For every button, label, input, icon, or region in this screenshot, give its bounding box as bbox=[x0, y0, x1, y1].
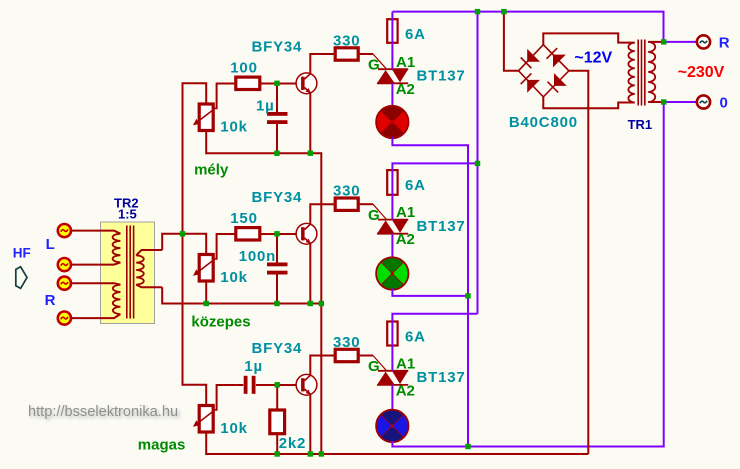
diode D3 (bottom-left) bbox=[521, 73, 540, 92]
node TR1 R junction bbox=[661, 39, 666, 44]
svg-text:0: 0 bbox=[720, 95, 728, 112]
potentiometer 10k channel 3 bbox=[193, 406, 216, 433]
wire TR2 top to channel2 input / pot2 top bbox=[162, 234, 206, 255]
wire collector3 to 330 resistor bbox=[310, 356, 335, 376]
node ground rail bottom junction bbox=[319, 451, 324, 456]
wire 2k2 top bbox=[276, 385, 278, 410]
transistor Q1 BFY34 bbox=[296, 73, 317, 94]
wire bridge right corner to ground rail bbox=[569, 71, 588, 454]
wire L- to TR2 winding1 bbox=[71, 262, 120, 264]
fuse 6A channel 1 bbox=[387, 19, 397, 43]
svg-text:mély: mély bbox=[194, 162, 229, 179]
wire feed channel 2 bbox=[392, 163, 477, 219]
wire pot2 wiper to resistor bbox=[216, 234, 236, 259]
wire series cap to base channel 3 bbox=[256, 384, 296, 386]
wire R+ to TR2 winding2 bbox=[71, 283, 120, 285]
svg-text:magas: magas bbox=[138, 436, 186, 453]
TR2 primary winding 2 bbox=[113, 285, 121, 314]
wire triac3 A2 to lamp bbox=[391, 385, 393, 411]
bridge diamond outline bbox=[519, 45, 569, 97]
wire pot1 bottom / channel1 ground rail down bbox=[206, 131, 321, 455]
svg-text:A2: A2 bbox=[396, 231, 415, 248]
wire 330 out channel 1 bbox=[358, 53, 373, 55]
wire 330 out channel 2 bbox=[358, 203, 373, 205]
wire emitter3 to ground bbox=[309, 395, 311, 455]
svg-text:~12V: ~12V bbox=[574, 50, 612, 67]
node cap2 bottom junction bbox=[274, 301, 279, 306]
svg-text:BFY34: BFY34 bbox=[252, 189, 303, 206]
svg-text:330: 330 bbox=[333, 33, 360, 50]
terminal 0 mains bbox=[697, 95, 710, 108]
svg-text:2k2: 2k2 bbox=[279, 435, 306, 452]
svg-text:G: G bbox=[368, 57, 380, 74]
wire 330 out channel 3 bbox=[358, 355, 373, 357]
svg-text:330: 330 bbox=[333, 183, 360, 200]
resistor 330 channel 1 bbox=[335, 48, 358, 60]
lamp közepes channel 2 bbox=[376, 257, 409, 289]
wire TR1 secondary top bbox=[648, 41, 664, 43]
potentiometer 10k channel 1 bbox=[193, 104, 216, 131]
transistor Q2 BFY34 bbox=[296, 223, 317, 244]
TR1 primary winding bbox=[628, 43, 634, 103]
wire return bus vertical bbox=[467, 145, 469, 446]
wire wiper to series cap bbox=[236, 384, 244, 386]
wire emitter2 to ground bbox=[309, 244, 311, 304]
wire pot3 wiper to resistor bbox=[216, 385, 236, 410]
svg-text:R: R bbox=[719, 34, 730, 51]
lamp magas channel 3 bbox=[376, 410, 409, 442]
svg-text:BFY34: BFY34 bbox=[252, 340, 303, 357]
svg-text:A2: A2 bbox=[396, 382, 415, 399]
TR1 core bbox=[638, 40, 645, 106]
wire bridge top to TR1 primary top bbox=[543, 33, 634, 44]
transistor Q3 BFY34 bbox=[296, 374, 317, 395]
wire gate diagonal channel 1 bbox=[373, 54, 387, 69]
node bus/channel2 input junction bbox=[180, 231, 185, 236]
node lamp2 return junction bbox=[465, 293, 470, 298]
wire bridge left corner feed bbox=[504, 12, 519, 71]
wire TR2 secondary bottom out bbox=[136, 285, 162, 288]
svg-text:1:5: 1:5 bbox=[118, 207, 137, 222]
input terminal L- bbox=[58, 258, 71, 271]
wire top purple rail bbox=[392, 12, 663, 42]
wire collector2 to 330 resistor bbox=[310, 204, 335, 224]
terminal R mains bbox=[697, 35, 710, 48]
triac T2 BT137 bbox=[377, 220, 408, 234]
wire feed bus vertical bbox=[477, 12, 479, 314]
wire pot1 wiper to resistor bbox=[216, 84, 236, 109]
node emitter2 ground junction bbox=[308, 301, 313, 306]
svg-text:BFY34: BFY34 bbox=[252, 38, 303, 55]
svg-text:B40C800: B40C800 bbox=[509, 114, 578, 131]
wire collector1 to 330 resistor bbox=[310, 54, 335, 74]
wire cap2 top bbox=[276, 234, 278, 263]
wire lamp3 return bottom rail to TR1 bbox=[392, 102, 663, 447]
svg-text:http://bsselektronika.hu: http://bsselektronika.hu bbox=[28, 404, 178, 420]
node top rail feed-bus junction bbox=[475, 9, 480, 14]
wire pot3 bottom / channel3 ground rail bbox=[206, 432, 588, 454]
TR2 secondary winding bbox=[136, 255, 144, 284]
node cap1 bottom junction bbox=[274, 151, 279, 156]
svg-text:10k: 10k bbox=[220, 118, 247, 135]
svg-text:A1: A1 bbox=[396, 54, 415, 71]
TR1 secondary winding bbox=[648, 42, 655, 102]
svg-text:G: G bbox=[368, 207, 380, 224]
wire emitter1 to ground bbox=[309, 93, 311, 153]
triac T3 BT137 bbox=[377, 371, 408, 385]
svg-text:6A: 6A bbox=[405, 329, 426, 346]
wire TR2 bottom to channel2 ground rail bbox=[162, 287, 321, 303]
svg-text:A1: A1 bbox=[396, 355, 415, 372]
node 2k2 top junction bbox=[275, 382, 280, 387]
wire triac1 A2 to lamp bbox=[391, 83, 393, 107]
node top rail bridge junction bbox=[501, 9, 506, 14]
svg-text:TR1: TR1 bbox=[628, 117, 653, 132]
diode D4 (bottom-right) bbox=[548, 73, 567, 92]
svg-text:10k: 10k bbox=[220, 269, 247, 286]
wire TR1 secondary bottom bbox=[648, 101, 664, 103]
wire left bus up to channel1 input / pot1 top bbox=[183, 83, 207, 234]
svg-text:150: 150 bbox=[230, 210, 257, 227]
svg-text:BT137: BT137 bbox=[417, 369, 466, 386]
resistor 100 channel 1 bbox=[236, 77, 260, 89]
TR2 primary winding 1 bbox=[113, 234, 121, 263]
wire bridge bottom to TR1 primary bottom bbox=[543, 97, 634, 108]
capacitor 100n channel 2 bbox=[267, 263, 288, 275]
wire cap2 bottom bbox=[276, 275, 278, 304]
svg-text:A2: A2 bbox=[396, 81, 415, 98]
resistor 2k2 bbox=[270, 410, 285, 434]
wire to terminal R bbox=[664, 41, 697, 43]
svg-text:6A: 6A bbox=[405, 26, 426, 43]
wire cap1 bottom bbox=[276, 124, 278, 153]
input terminal L+ bbox=[58, 224, 71, 237]
wire left bus down to channel3 input / pot3 top bbox=[183, 234, 207, 406]
input terminal R+ bbox=[58, 277, 71, 290]
node emitter1 ground junction bbox=[308, 151, 313, 156]
input terminal R- bbox=[58, 312, 71, 325]
svg-text:6A: 6A bbox=[405, 177, 426, 194]
svg-text:100: 100 bbox=[230, 59, 257, 76]
node 2k2 bottom junction bbox=[275, 451, 280, 456]
wire pot2 bottom bbox=[205, 280, 207, 304]
node ground rail crossing junction bbox=[319, 301, 324, 306]
wire L+ to TR2 winding1 bbox=[71, 231, 120, 234]
fuse 6A channel 3 bbox=[387, 322, 397, 346]
node feed junction channel 2 bbox=[475, 161, 480, 166]
node cap1 top junction bbox=[274, 81, 279, 86]
diode D2 (top-right) bbox=[547, 48, 566, 67]
svg-text:BT137: BT137 bbox=[417, 218, 466, 235]
node pot2 ground junction bbox=[204, 301, 209, 306]
svg-text:HF: HF bbox=[13, 246, 31, 261]
fuse 6A channel 2 bbox=[387, 170, 397, 195]
capacitor 1µ channel 3 (series) bbox=[244, 376, 256, 394]
svg-text:100n: 100n bbox=[239, 248, 276, 265]
wire resistor to base channel 1 bbox=[260, 83, 296, 85]
triac T1 BT137 bbox=[377, 69, 408, 83]
TR2 core bbox=[127, 226, 134, 319]
wire lamp1 return down right bus bbox=[392, 137, 468, 447]
capacitor 1µ channel 1 bbox=[267, 112, 288, 124]
svg-text:L: L bbox=[46, 236, 55, 253]
wire R- to TR2 winding2 bbox=[71, 314, 120, 318]
wire gate diagonal channel 3 bbox=[373, 356, 387, 371]
svg-text:R: R bbox=[45, 292, 56, 309]
wire lamp2 return bbox=[392, 289, 468, 296]
svg-text:közepes: közepes bbox=[191, 313, 250, 330]
node TR1 0 junction bbox=[661, 99, 666, 104]
wire TR2 secondary top out bbox=[136, 250, 162, 255]
lamp mély channel 1 bbox=[376, 106, 409, 138]
node cap2 top junction bbox=[274, 231, 279, 236]
wire resistor to base channel 2 bbox=[260, 233, 296, 235]
wire 2k2 bottom bbox=[276, 434, 278, 454]
resistor 150 channel 2 bbox=[236, 228, 260, 240]
node emitter3 ground junction bbox=[308, 451, 313, 456]
node bottom rail junction bbox=[465, 444, 470, 449]
svg-text:10k: 10k bbox=[220, 420, 247, 437]
wire gate diagonal channel 2 bbox=[373, 204, 387, 219]
svg-text:1µ: 1µ bbox=[244, 358, 263, 375]
wire top rail drop to triac 1 bbox=[391, 12, 393, 70]
resistor 330 channel 3 bbox=[335, 349, 358, 361]
wire triac2 A2 to lamp bbox=[391, 234, 393, 259]
svg-text:G: G bbox=[368, 358, 380, 375]
wire feed channel 3 bbox=[392, 314, 477, 371]
HF arrow symbol bbox=[16, 267, 27, 289]
wire cap1 top bbox=[276, 84, 278, 113]
potentiometer 10k channel 2 bbox=[193, 255, 216, 282]
wire to terminal 0 bbox=[664, 101, 697, 103]
svg-text:330: 330 bbox=[333, 334, 360, 351]
svg-text:~230V: ~230V bbox=[678, 64, 725, 81]
svg-text:1µ: 1µ bbox=[256, 97, 275, 114]
transformer TR2 body bbox=[101, 222, 155, 324]
svg-text:BT137: BT137 bbox=[417, 68, 466, 85]
resistor 330 channel 2 bbox=[335, 198, 358, 210]
svg-text:A1: A1 bbox=[396, 204, 415, 221]
diode D1 (top-left) bbox=[521, 49, 540, 68]
